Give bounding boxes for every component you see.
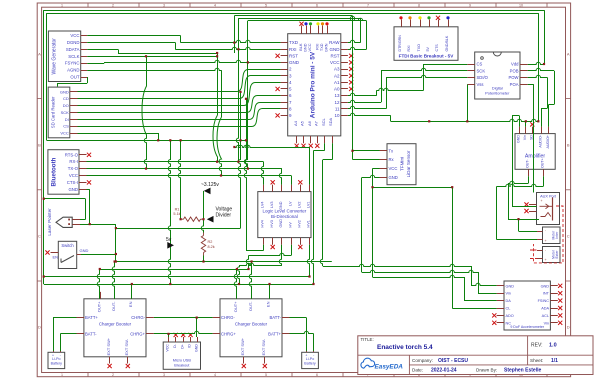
svg-text:GRN: GRN [324, 43, 328, 52]
no-connect X micro USB ID [188, 333, 192, 337]
wire LLC HV drop [249, 253, 292, 255]
svg-text:3: 3 [163, 4, 165, 8]
junction at 239,284 [238, 283, 240, 285]
wire charger1 CHRG+ net [154, 331, 213, 333]
svg-text:Battery: Battery [304, 361, 316, 365]
wire wire RXI riser [236, 18, 238, 161]
resistor R1 5.1k [184, 217, 201, 221]
wave generator pins [81, 35, 88, 37]
svg-text:Inter: Inter [555, 231, 559, 239]
svg-text:RTS-O: RTS-O [65, 152, 79, 157]
wave generator U1 body [48, 31, 80, 82]
wire battery1 - net [60, 333, 76, 335]
junction at 234,43 [233, 42, 235, 44]
title block dividers [358, 354, 593, 356]
svg-text:B: B [38, 143, 41, 148]
svg-text:-: - [60, 353, 61, 357]
svg-text:Laser Pointer: Laser Pointer [47, 208, 52, 236]
junction at 204,219 [202, 218, 204, 220]
wire rail 276 HV1 [44, 276, 310, 278]
wire rail 228 [116, 228, 241, 230]
wire bus TXD [234, 15, 352, 17]
logic level converter bottom pins [263, 238, 265, 245]
wire VCC rail right drop [538, 13, 540, 121]
svg-text:GND: GND [541, 284, 550, 288]
svg-text:AGND: AGND [67, 68, 79, 73]
svg-text:A7: A7 [314, 120, 319, 126]
wire TFmini Tx riser [352, 16, 354, 160]
svg-text:C: C [567, 234, 570, 239]
svg-text:GND: GND [279, 219, 283, 228]
junction at 314,284 [312, 283, 314, 285]
junction at 116,228 [115, 227, 117, 229]
digital potentiometer right pins [520, 64, 528, 66]
svg-text:Potentiometer: Potentiometer [485, 90, 510, 95]
svg-text:NC: NC [506, 321, 512, 325]
svg-text:ID: ID [188, 344, 192, 348]
svg-text:OIST - ECSU: OIST - ECSU [438, 358, 468, 364]
junction at 544,64 [543, 63, 545, 65]
wire microusb GND riser [196, 318, 198, 337]
svg-text:Li-Po: Li-Po [306, 357, 314, 361]
junction at 44,199 [43, 198, 45, 200]
junction at 44,276 [43, 275, 45, 277]
junction at 526,121 [525, 120, 527, 122]
svg-text:BATT+: BATT+ [85, 315, 98, 320]
svg-text:LV4: LV4 [261, 202, 265, 208]
wire bluetooth VCC net [87, 175, 292, 177]
svg-text:Company:: Company: [412, 358, 433, 363]
junction at 197,318 [196, 317, 198, 319]
svg-text:CD: CD [63, 96, 69, 101]
no-connect X 9DoF NC [492, 321, 496, 325]
switch S1 body [58, 241, 76, 268]
FTDI pin dot GND blue [446, 16, 449, 19]
arduino top pin dot TXD orange [321, 22, 324, 25]
bluetooth pins [79, 154, 87, 156]
wire jack to motor inter [519, 231, 538, 233]
svg-text:AUDIO+: AUDIO+ [546, 135, 550, 148]
junction at 240,92 [239, 91, 241, 93]
svg-text:Vin: Vin [523, 135, 527, 140]
svg-text:Arduino Pro mini - 5V: Arduino Pro mini - 5V [310, 51, 317, 118]
FTDI pin dot TXO yellow [418, 16, 421, 19]
svg-text:Vss: Vss [477, 82, 484, 87]
wire amp Vin riser [525, 121, 527, 126]
svg-text:6: 6 [316, 4, 318, 8]
svg-text:OUT-: OUT- [111, 301, 116, 311]
no-connect X bluetooth CTS-I [87, 180, 91, 184]
svg-text:DTR/GRN: DTR/GRN [398, 35, 402, 52]
no-connect X charger1 EXT SW+ [108, 364, 112, 368]
TFmini left pins [380, 150, 388, 152]
digital potentiometer left pins [467, 64, 474, 66]
junction at 132,284 [131, 283, 133, 285]
no-connect X arduino RST left [276, 54, 280, 58]
wire pot POW to AUDIO- [528, 75, 548, 77]
svg-text:GND: GND [506, 284, 515, 288]
wire wavegen OUT loop [58, 83, 88, 85]
no-connect X arduino BLK [299, 22, 303, 26]
wire SD net 6 [78, 109, 281, 127]
svg-text:EXT SW-: EXT SW- [124, 338, 129, 355]
junction at 248,169 [247, 168, 249, 170]
no-connect X LLC HV3 [271, 245, 275, 249]
junction at 100,269 [99, 268, 101, 270]
svg-text:1: 1 [61, 4, 63, 8]
junction at 238,49 [237, 48, 239, 50]
svg-text:LV3: LV3 [270, 202, 274, 208]
wire pot POA to AUX [528, 84, 534, 86]
laser pointer pin 2 [72, 224, 80, 226]
svg-text:A5: A5 [300, 120, 305, 126]
svg-text:EN: EN [53, 255, 59, 260]
svg-text:Micro USB: Micro USB [173, 359, 192, 363]
svg-text:SDA: SDA [328, 117, 333, 126]
wire R2 bottom net [203, 256, 205, 262]
wire wavegen DGND net [87, 42, 175, 44]
svg-text:A6: A6 [307, 120, 312, 126]
svg-text:1: 1 [61, 373, 63, 377]
svg-text:SCL: SCL [321, 117, 326, 126]
wire VCC rail left [46, 13, 48, 140]
wire R2 top net [201, 191, 203, 233]
junction at 252,262 [251, 260, 253, 262]
no-connect X 9DoF ADO [492, 313, 496, 317]
svg-text:C: C [38, 234, 41, 239]
svg-text:A0: A0 [334, 87, 340, 92]
no-connect X LLC LV3 [271, 180, 275, 184]
digital potentiometer U9 body [475, 52, 520, 99]
svg-text:ADO: ADO [506, 314, 514, 318]
charger booster 2 left pins CHRG- CHRG+ [213, 317, 220, 319]
wire trunk x170 [168, 140, 170, 284]
arduino top pin dot GND blue [304, 22, 307, 25]
wire arduino 10 to amp line [348, 113, 391, 115]
svg-text:RAW: RAW [329, 40, 340, 45]
junction at 429,121 [428, 120, 430, 122]
svg-text:9 DoF Accelerometer: 9 DoF Accelerometer [510, 325, 545, 329]
digital potentiometer notch [493, 52, 501, 56]
arduino pro mini U7 body [288, 34, 341, 136]
svg-text:CS: CS [63, 124, 69, 129]
arduino top pin dot RXI yellow [316, 22, 319, 25]
svg-text:LV: LV [288, 201, 292, 206]
svg-text:10: 10 [334, 113, 340, 118]
no-connect X arduino A7 [315, 144, 319, 148]
wire LLC GND drop [239, 263, 282, 265]
svg-text:A: A [567, 52, 570, 57]
svg-text:R1: R1 [175, 208, 180, 212]
svg-text:D: D [567, 325, 570, 330]
svg-text:TITLE:: TITLE: [361, 337, 374, 342]
svg-text:Enactive torch 5.4: Enactive torch 5.4 [377, 344, 433, 351]
svg-text:SCLK: SCLK [68, 54, 79, 59]
wire microusb VCC riser [168, 334, 170, 337]
wire TFmini GND net [362, 175, 380, 177]
wire bluetooth RX-I net [87, 161, 264, 163]
no-connect X micro USB D+ [181, 333, 185, 337]
wire top bus line 4 [238, 18, 360, 20]
svg-text:3: 3 [163, 373, 165, 377]
svg-text:8.2k: 8.2k [208, 245, 215, 249]
junction at 217,56 [216, 55, 218, 57]
svg-text:TXD: TXD [289, 40, 299, 45]
svg-text:2: 2 [112, 373, 114, 377]
junction at 238,162 [237, 161, 239, 163]
svg-text:Vin: Vin [506, 292, 511, 296]
li-po battery BT2 body [302, 352, 319, 368]
wire arduino SDA net [323, 159, 332, 161]
svg-text:Divider: Divider [216, 213, 232, 219]
svg-text:Li-Po: Li-Po [52, 357, 60, 361]
wire wavegen SDATA net [87, 49, 118, 51]
arduino right pins [341, 42, 348, 44]
resistor R2 8.2k [201, 236, 205, 253]
svg-text:4: 4 [214, 373, 216, 377]
svg-text:REV:: REV: [531, 343, 542, 349]
no-connect X arduino A5 [301, 144, 305, 148]
svg-text:Bluetooth: Bluetooth [51, 157, 58, 186]
wire bus GND [248, 18, 367, 20]
junction at 115,262 [114, 260, 116, 262]
no-connect X AUX pin 2 [524, 209, 528, 213]
junction at 538,121 [537, 120, 539, 122]
no-connect X LLC HV2 [298, 245, 302, 249]
junction at 248,269 [247, 268, 249, 270]
svg-text:Date:: Date: [412, 368, 423, 373]
no-connect X 9DoF right pins [558, 284, 562, 288]
junction at 217,53 [216, 52, 218, 54]
wire charger1 OUT- riser [112, 262, 114, 299]
svg-text:CHRG+: CHRG+ [221, 331, 236, 336]
svg-text:SD Card Reader: SD Card Reader [51, 96, 56, 128]
charger booster right pins CHRG- CHRG+ [146, 317, 154, 319]
arduino bottom pins [296, 136, 298, 143]
svg-text:Switch: Switch [61, 243, 74, 248]
wire SD net 2 [78, 76, 281, 99]
charger booster U5 body [220, 299, 282, 357]
svg-text:Logic Level Converter: Logic Level Converter [263, 209, 307, 214]
svg-text:FSINC: FSINC [538, 299, 550, 303]
wire TFmini Tx h [353, 150, 380, 152]
svg-text:13: 13 [334, 93, 340, 98]
svg-text:FSYNC: FSYNC [65, 61, 80, 66]
wire laser pin1 net [80, 219, 85, 221]
SD card reader U2 body [48, 87, 70, 138]
svg-text:2022-01-24: 2022-01-24 [431, 368, 457, 374]
wire charger2 OUT+ riser [234, 269, 236, 299]
wire LLC LV1 riser [234, 145, 309, 147]
svg-text:OUT: OUT [70, 75, 79, 80]
no-connect X micro USB D- [174, 333, 178, 337]
svg-text:RST: RST [289, 53, 298, 58]
svg-text:TFMini: TFMini [400, 157, 405, 171]
svg-text:GND/BLK: GND/BLK [445, 35, 449, 51]
svg-text:A1: A1 [334, 80, 340, 85]
svg-text:EasyEDA: EasyEDA [375, 363, 404, 370]
svg-text:VCC: VCC [330, 60, 340, 65]
wire arduino 12 to pot SCK [348, 100, 381, 102]
frame row ticks left and right [37, 98, 41, 100]
svg-text:OUT+: OUT+ [540, 158, 544, 168]
svg-text:GND: GND [389, 175, 398, 180]
svg-text:5: 5 [265, 373, 267, 377]
svg-text:LV2: LV2 [298, 202, 302, 208]
svg-text:Drawn By:: Drawn By: [476, 368, 497, 373]
logic level converter U12 body [258, 192, 311, 238]
wire HV riser 246 [246, 250, 264, 252]
svg-text:RX-I: RX-I [69, 159, 78, 164]
no-connect X charger1 EXT SW- [126, 364, 130, 368]
arduino top pin dot VCC green [309, 22, 312, 25]
svg-text:SCK: SCK [477, 68, 486, 73]
motor inter M1 body [543, 227, 561, 244]
svg-text:POW: POW [508, 75, 518, 80]
svg-text:OUT-: OUT- [526, 159, 530, 168]
svg-text:CL: CL [506, 307, 511, 311]
arduino top pin dot GRN red [325, 22, 328, 25]
svg-text:LiDar Sensor: LiDar Sensor [406, 150, 411, 177]
svg-text:4: 4 [214, 4, 216, 8]
FTDI pin dot DTR red [399, 16, 402, 19]
wire bus RXI [238, 16, 360, 18]
junction at 467,121 [466, 120, 468, 122]
svg-text:ACL: ACL [542, 314, 549, 318]
digital potentiometer pin1 dot [481, 57, 484, 60]
junction at 158,140 [157, 139, 159, 141]
svg-text:RXI: RXI [289, 47, 297, 52]
wire LLC HV1 drop [307, 245, 309, 277]
wire SD net 3 [78, 83, 281, 106]
no-connect X FTDI CTS [436, 16, 440, 20]
svg-text:EXT SW+: EXT SW+ [240, 337, 245, 355]
svg-text:GND: GND [68, 187, 78, 192]
frame column ticks top [87, 3, 89, 7]
svg-text:9: 9 [469, 4, 471, 8]
wire pot Vdd net [528, 62, 544, 64]
wire GND rail top [44, 10, 544, 12]
FTDI basic breakout U8 body [394, 27, 458, 61]
wire TFmini VCC net [373, 168, 380, 170]
svg-text:+: + [544, 258, 546, 262]
svg-text:OUT-: OUT- [248, 301, 253, 311]
svg-text:Breakout: Breakout [174, 363, 190, 367]
switch pin EN [51, 252, 59, 254]
svg-text:DGND: DGND [67, 40, 80, 45]
svg-text:7: 7 [367, 4, 369, 8]
junction at 168,334 [167, 333, 169, 335]
wire wavegen VCC net [87, 35, 180, 37]
svg-text:GND: GND [279, 201, 283, 210]
TFmini lidar sensor U11 body [387, 144, 416, 185]
wire top bus line 5 [248, 20, 367, 22]
junction at 181,140 [180, 139, 182, 141]
svg-text:Vin: Vin [544, 321, 549, 325]
svg-text:5V: 5V [426, 47, 430, 52]
wire SD VCC net [78, 133, 159, 135]
charger booster 2 top pins OUT+ OUT- EN [236, 292, 238, 299]
motor inter pins [537, 231, 543, 233]
wire VCC rail top [47, 13, 539, 15]
wire switch GND net [81, 254, 116, 256]
svg-text:8: 8 [418, 4, 420, 8]
svg-text:1/1: 1/1 [551, 358, 558, 364]
svg-text:VCC: VCC [60, 131, 69, 136]
svg-text:POB: POB [510, 68, 519, 73]
FTDI pin dot RXI orange [408, 16, 411, 19]
wire amp GND net [512, 115, 519, 117]
svg-text:CTS-I: CTS-I [67, 180, 78, 185]
wire charger1 EN riser [131, 284, 133, 299]
svg-text:SD: SD [530, 135, 534, 140]
junction at 116,262 [115, 260, 117, 262]
junction at 240,140 [239, 139, 241, 141]
no-connect X arduino A4 [295, 144, 299, 148]
svg-text:BATT-: BATT- [85, 331, 97, 336]
svg-text:B: B [567, 143, 570, 148]
svg-text:ADA: ADA [541, 307, 549, 311]
wire trunk arc B [213, 115, 218, 162]
wire trunk arc A [142, 57, 147, 169]
svg-text:VCC: VCC [389, 166, 398, 171]
svg-text:SCK: SCK [61, 110, 70, 115]
svg-text:A3: A3 [334, 67, 340, 72]
wire arduino 13 to pot CS [348, 93, 377, 95]
external motor dashed wires [530, 250, 537, 259]
9 DoF left pins [497, 285, 504, 287]
svg-text:POA: POA [510, 82, 519, 87]
micro USB breakout top pins [168, 337, 170, 342]
wire pot Vss drop [467, 84, 469, 121]
svg-text:HV4: HV4 [261, 220, 265, 227]
svg-text:Rx: Rx [389, 157, 395, 162]
wire arc3 stem [221, 70, 223, 117]
wire wavegen SCLK net [87, 56, 217, 58]
no-connect X bluetooth RTS-O [87, 153, 91, 157]
li-po battery 2 pins [306, 351, 308, 352]
svg-text:TX-O: TX-O [68, 166, 79, 171]
FTDI top pins [401, 20, 403, 27]
svg-text:GND: GND [195, 344, 199, 352]
svg-text:BLK: BLK [299, 43, 303, 51]
laser pointer pin 1 [72, 219, 80, 221]
micro USB breakout U6 body [163, 342, 200, 369]
wire battery2 - net [290, 331, 314, 333]
svg-text:-: - [313, 353, 314, 357]
junction at 246,140 [245, 139, 247, 141]
wire GND rail left [43, 10, 45, 284]
svg-text:D+: D+ [180, 344, 184, 349]
svg-text:DI: DI [65, 117, 69, 122]
wire SD net 1 [78, 70, 281, 92]
svg-text:RXI: RXI [407, 46, 411, 52]
amplifier top pins [519, 127, 521, 134]
wire GND right riser [366, 21, 368, 50]
svg-text:GND: GND [80, 248, 89, 253]
svg-text:EXT SW+: EXT SW+ [106, 337, 111, 355]
AUX port jack symbol [552, 198, 554, 221]
svg-text:RXI: RXI [315, 44, 319, 50]
svg-text:OUT+: OUT+ [233, 301, 238, 312]
svg-text:LV1: LV1 [307, 202, 311, 208]
svg-text:Exter: Exter [555, 250, 559, 259]
svg-text:Sheet:: Sheet: [530, 358, 543, 363]
wire 9dof Vin feed [452, 308, 496, 310]
wire laser pin2 net [80, 224, 116, 226]
svg-text:VCC: VCC [70, 33, 79, 38]
no-connect X LLC LV2 [298, 180, 302, 184]
